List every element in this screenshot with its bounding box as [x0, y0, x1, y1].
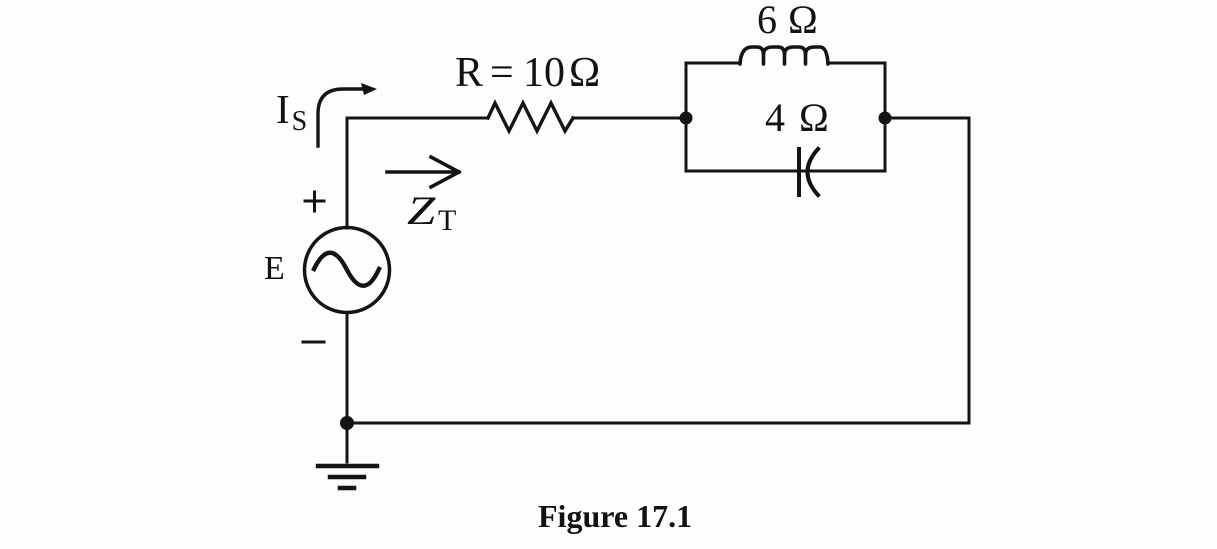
resistor R (zigzag) [488, 103, 573, 131]
label 6 ohm [757, 0, 777, 43]
node B junction dot [879, 112, 892, 125]
wire top-left vertical (source top to top wire corner) [347, 118, 488, 228]
wire right branch vertical of parallel box [884, 63, 887, 171]
inductor 6 ohm (coil) [740, 47, 828, 64]
label Is [276, 85, 307, 138]
wire box top-right segment [828, 62, 885, 65]
wire resistor to node A [573, 117, 686, 120]
wire source bottom to node G [346, 313, 349, 423]
sine symbol inside source [314, 253, 379, 286]
node G junction dot [340, 416, 354, 430]
minus sign [303, 341, 324, 344]
wire left branch vertical of parallel box [685, 63, 688, 171]
wire ground stem [346, 423, 349, 462]
label ZT [407, 187, 435, 234]
wire node B to right edge [885, 117, 969, 120]
current Is curved arrow [318, 89, 365, 146]
wire right outer vertical [968, 118, 971, 423]
ground symbol bars [318, 466, 377, 488]
node A junction dot [680, 112, 693, 125]
plus sign [305, 192, 324, 211]
voltage source E circle [305, 228, 390, 313]
label E [264, 250, 285, 288]
impedance ZT arrow [387, 157, 459, 187]
capacitor 4 ohm plates [799, 149, 818, 195]
wire box top-left segment [686, 62, 740, 65]
wire box bottom (through capacitor) [686, 170, 885, 173]
caption Figure 17.1 [538, 498, 692, 535]
label 4 ohm [765, 94, 785, 141]
wire bottom return [347, 422, 969, 425]
label R = 10 ohm [455, 49, 483, 97]
